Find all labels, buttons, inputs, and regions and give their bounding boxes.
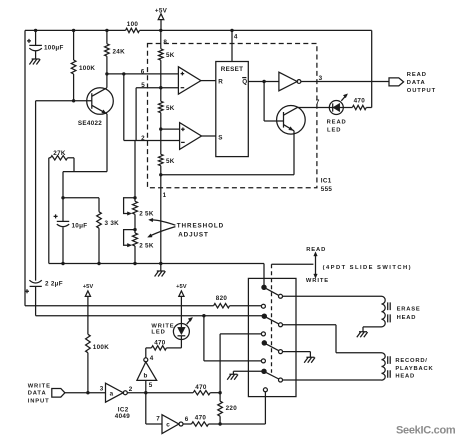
- svg-text:4049: 4049: [115, 413, 130, 420]
- svg-text:DATA: DATA: [28, 391, 47, 397]
- wire pin2 row: [124, 140, 180, 142]
- flip-flop box RESET: [216, 62, 249, 157]
- svg-text:OUTPUT: OUTPUT: [407, 88, 436, 94]
- inverter a: [100, 383, 133, 402]
- inverter c: [156, 415, 188, 434]
- wire emitter row: [63, 171, 107, 173]
- svg-text:Q: Q: [242, 79, 247, 86]
- svg-text:3 3K: 3 3K: [105, 220, 120, 227]
- svg-text:100μF: 100μF: [44, 44, 64, 51]
- svg-text:470: 470: [195, 384, 207, 391]
- svg-text:5K: 5K: [166, 105, 175, 112]
- node dot emitter return: [159, 173, 162, 176]
- switch pole 5 blade: [266, 344, 283, 354]
- wire divider to comparator2 +: [161, 128, 180, 130]
- svg-text:SeekIC.com: SeekIC.com: [396, 425, 456, 437]
- svg-text:3: 3: [319, 75, 323, 82]
- inductor record head coil: [382, 353, 391, 380]
- node dot base-100K: [72, 99, 75, 102]
- svg-text:LED: LED: [327, 128, 341, 134]
- label READ-WRITE slide positions: [272, 247, 412, 284]
- potentiometer 2.5K lower: [124, 214, 154, 263]
- resistor 820: [214, 295, 230, 308]
- wire inverter c input: [146, 393, 162, 424]
- wire pin7 row: [298, 106, 329, 109]
- svg-text:6: 6: [185, 416, 189, 423]
- power +5V (100K pull-up): [83, 284, 94, 334]
- transistor Q1 SE4022: [78, 74, 113, 172]
- node dot 10uF top: [61, 196, 64, 199]
- wire pin6 row (collector to comparator +): [107, 73, 178, 75]
- wire c row up to switch row8: [264, 392, 266, 424]
- node dot 220 bottom: [218, 422, 221, 425]
- wire head-common row (2.2uF to switch): [36, 315, 263, 317]
- svg-text:SE4022: SE4022: [78, 120, 102, 127]
- svg-text:INPUT: INPUT: [28, 398, 50, 404]
- svg-text:2: 2: [129, 386, 133, 393]
- wire right +5V drop to 470: [371, 30, 373, 107]
- svg-text:470: 470: [354, 98, 366, 105]
- resistor 220: [218, 401, 237, 424]
- node dot 100uF junction: [34, 29, 37, 32]
- svg-text:WRITE: WRITE: [306, 278, 329, 284]
- switch throw 2 contact (820): [261, 304, 265, 308]
- svg-text:10μF: 10μF: [72, 222, 88, 229]
- svg-text:7: 7: [156, 416, 160, 423]
- switch pole 1 blade: [266, 288, 283, 298]
- capacitor 2.2uF: [25, 280, 63, 316]
- svg-text:RESET: RESET: [221, 66, 244, 73]
- potentiometer 2.5K upper: [124, 198, 154, 218]
- wire left border vertical (+5V to 820 row): [24, 30, 26, 305]
- node dot comparator2 + divider: [159, 127, 162, 130]
- wire 820 row (+5V rail to switch): [25, 305, 261, 307]
- ground rail symbol: [155, 264, 166, 277]
- node dot 100K junction: [72, 29, 75, 32]
- svg-text:470: 470: [154, 340, 166, 347]
- svg-text:WRITE: WRITE: [151, 324, 174, 330]
- wire inverter a output row: [127, 392, 193, 394]
- switch box outline: [248, 278, 296, 396]
- LED write indicator: [151, 317, 192, 348]
- wire pot feed from pin2 row: [134, 141, 136, 198]
- label IC2 4049: [115, 406, 130, 420]
- node dot 24K junction: [105, 29, 108, 32]
- node dot 10uF bottom: [61, 262, 64, 265]
- resistor 5K first: [159, 49, 175, 88]
- wire Q1 base row: [36, 100, 92, 102]
- svg-text:470: 470: [195, 414, 207, 421]
- resistor 5K third: [159, 129, 175, 175]
- wire pin4 reset: [231, 30, 233, 61]
- svg-text:R: R: [218, 79, 223, 86]
- inductor erase head coil: [382, 296, 391, 327]
- wire 220 column (row4 feed): [220, 334, 261, 401]
- wire pole7 ground lead: [233, 371, 262, 374]
- svg-text:220: 220: [226, 405, 238, 412]
- svg-text:2 5K: 2 5K: [139, 210, 154, 217]
- svg-text:5K: 5K: [166, 52, 175, 59]
- wire branch down to row6: [204, 316, 262, 361]
- svg-text:5: 5: [149, 382, 153, 389]
- node dot pin4 junction: [230, 29, 233, 32]
- resistor 100: [126, 21, 140, 32]
- capacitor 10uF: [54, 198, 88, 264]
- wire Q2 emitter return row: [161, 174, 294, 176]
- LED read indicator: [327, 94, 348, 134]
- svg-text:8: 8: [163, 39, 167, 46]
- wire pole3 to record head top: [283, 325, 382, 353]
- transistor Q2 (read driver): [277, 106, 306, 175]
- connector WRITE DATA INPUT: [28, 383, 65, 404]
- svg-text:27K: 27K: [53, 150, 66, 157]
- op-amp comparator lower: [180, 123, 216, 150]
- svg-text:5K: 5K: [166, 158, 175, 165]
- switch throw 8 contact (write drive): [263, 388, 267, 392]
- svg-text:555: 555: [321, 186, 333, 193]
- wire Q-bar output stub: [248, 81, 279, 83]
- resistor 470 (write led): [146, 340, 182, 351]
- svg-text:820: 820: [216, 295, 228, 302]
- node dot Q output: [262, 80, 265, 83]
- connector READ DATA OUTPUT: [389, 72, 436, 94]
- svg-text:2 5K: 2 5K: [139, 243, 154, 250]
- inverter b: [137, 348, 157, 393]
- switch pole 1 contact: [262, 285, 266, 289]
- wire 5K chain top / pin8: [160, 30, 162, 48]
- switch pole 3 blade: [266, 317, 283, 327]
- resistor 470 (a output): [193, 384, 220, 395]
- switch pole 7 contact: [262, 369, 266, 373]
- svg-text:c: c: [166, 422, 170, 429]
- node dot 3.3K bottom: [97, 262, 100, 265]
- wire pin3 to output flag: [301, 81, 389, 83]
- svg-text:3: 3: [100, 385, 104, 392]
- resistor 100K (write input): [86, 334, 110, 392]
- svg-text:2: 2: [141, 135, 145, 142]
- node dot pot2 top: [133, 228, 136, 231]
- svg-text:5: 5: [141, 82, 145, 89]
- node dot pots bottom: [133, 262, 136, 265]
- wire pole5 to ground: [283, 352, 311, 358]
- wire erase head bottom to ground: [363, 327, 382, 332]
- svg-text:7: 7: [316, 99, 320, 106]
- buffer U1 output: [279, 72, 301, 91]
- wire 10uF-3.3K row: [63, 197, 99, 199]
- svg-text:4: 4: [234, 33, 238, 40]
- wire ground rail: [49, 264, 264, 286]
- svg-text:DATA: DATA: [407, 80, 426, 86]
- svg-text:100K: 100K: [79, 65, 95, 72]
- resistor 100K (top): [71, 30, 95, 100]
- svg-text:HEAD: HEAD: [395, 374, 415, 380]
- svg-text:THRESHOLD: THRESHOLD: [177, 222, 224, 229]
- svg-text:READ: READ: [327, 120, 347, 126]
- node dot 100K-input: [86, 391, 89, 394]
- switch throw 4 contact (220): [261, 332, 265, 336]
- wire input row: [65, 392, 106, 394]
- power +5V (write led): [176, 284, 187, 324]
- svg-text:READ: READ: [407, 72, 427, 78]
- svg-text:6: 6: [141, 68, 145, 75]
- resistor 24K: [105, 30, 126, 74]
- node dot head-common branch: [202, 314, 205, 317]
- svg-text:a: a: [110, 390, 114, 397]
- svg-text:LED: LED: [151, 330, 165, 336]
- svg-text:PLAYBACK: PLAYBACK: [395, 366, 433, 372]
- node dot pot1 top: [133, 196, 136, 199]
- svg-text:IC1: IC1: [321, 178, 332, 185]
- wire 5K chain bottom / pin1: [160, 175, 162, 264]
- ground erase head: [357, 332, 368, 338]
- power +5V (top): [155, 8, 168, 31]
- ground 100uF: [29, 59, 40, 65]
- resistor 470 (c output): [183, 414, 265, 426]
- label THRESHOLD ADJUST with pointer arrows: [148, 218, 224, 238]
- resistor 470 (read led): [343, 98, 371, 110]
- node dot pin6 branch: [122, 72, 125, 75]
- svg-text:ERASE: ERASE: [397, 306, 421, 312]
- node dot pin5 divider: [159, 86, 162, 89]
- op-amp comparator upper: [178, 67, 215, 94]
- wire collector branch down to pots: [123, 74, 125, 141]
- svg-text:HEAD: HEAD: [397, 315, 417, 321]
- resistor 27K: [49, 150, 74, 160]
- resistor 3.3K: [97, 198, 119, 264]
- wire 27K right to emitter row: [73, 158, 75, 172]
- svg-text:+5V: +5V: [176, 284, 187, 290]
- wire top +5V rail: [25, 29, 372, 31]
- wire emitter node drop: [62, 172, 64, 198]
- node dot b input: [144, 391, 147, 394]
- wire base drop to 2.2uF: [35, 101, 37, 281]
- svg-text:2 2μF: 2 2μF: [45, 281, 63, 288]
- wire 27K left drop to ground rail: [48, 158, 50, 264]
- svg-text:WRITE: WRITE: [28, 383, 51, 389]
- svg-text:RECORD/: RECORD/: [395, 358, 427, 364]
- switch gang dashed line: [271, 264, 273, 373]
- switch pole 5 contact: [262, 341, 266, 345]
- wire pole1 to erase head top: [283, 295, 382, 297]
- svg-text:100: 100: [127, 21, 139, 28]
- IC1 555 dashed boundary: [148, 44, 317, 188]
- switch pole 3 contact: [262, 314, 266, 318]
- svg-text:S: S: [218, 134, 223, 141]
- wire pin5 row corner: [136, 88, 178, 141]
- ground pole7: [227, 374, 238, 380]
- svg-text:24K: 24K: [113, 48, 126, 55]
- svg-text:+5V: +5V: [83, 284, 94, 290]
- svg-text:READ: READ: [306, 247, 326, 253]
- svg-text:ADJUST: ADJUST: [178, 231, 209, 238]
- svg-text:4: 4: [150, 355, 154, 362]
- wire pole7 blade to record head bottom: [283, 379, 382, 381]
- svg-text:1: 1: [163, 192, 167, 199]
- wire Q2 base drop: [264, 82, 283, 122]
- capacitor 100uF: [27, 30, 64, 59]
- label RECORD/PLAYBACK HEAD: [395, 358, 433, 380]
- node dot 220-470 junction: [218, 391, 221, 394]
- switch throw 6 contact (head common): [261, 359, 265, 363]
- node dot collector-24K: [105, 72, 108, 75]
- node dot 5K chain junction: [159, 29, 162, 32]
- resistor 5K second: [159, 88, 175, 129]
- label IC1 555: [321, 178, 333, 193]
- svg-text:100K: 100K: [93, 344, 109, 351]
- ground pole5: [304, 357, 315, 363]
- svg-text:b: b: [144, 373, 148, 380]
- label ERASE HEAD: [397, 306, 421, 320]
- node dot 5K chain bottom: [159, 262, 162, 265]
- switch pole 7 blade: [266, 372, 283, 382]
- svg-text:(4PDT SLIDE SWITCH): (4PDT SLIDE SWITCH): [323, 265, 412, 271]
